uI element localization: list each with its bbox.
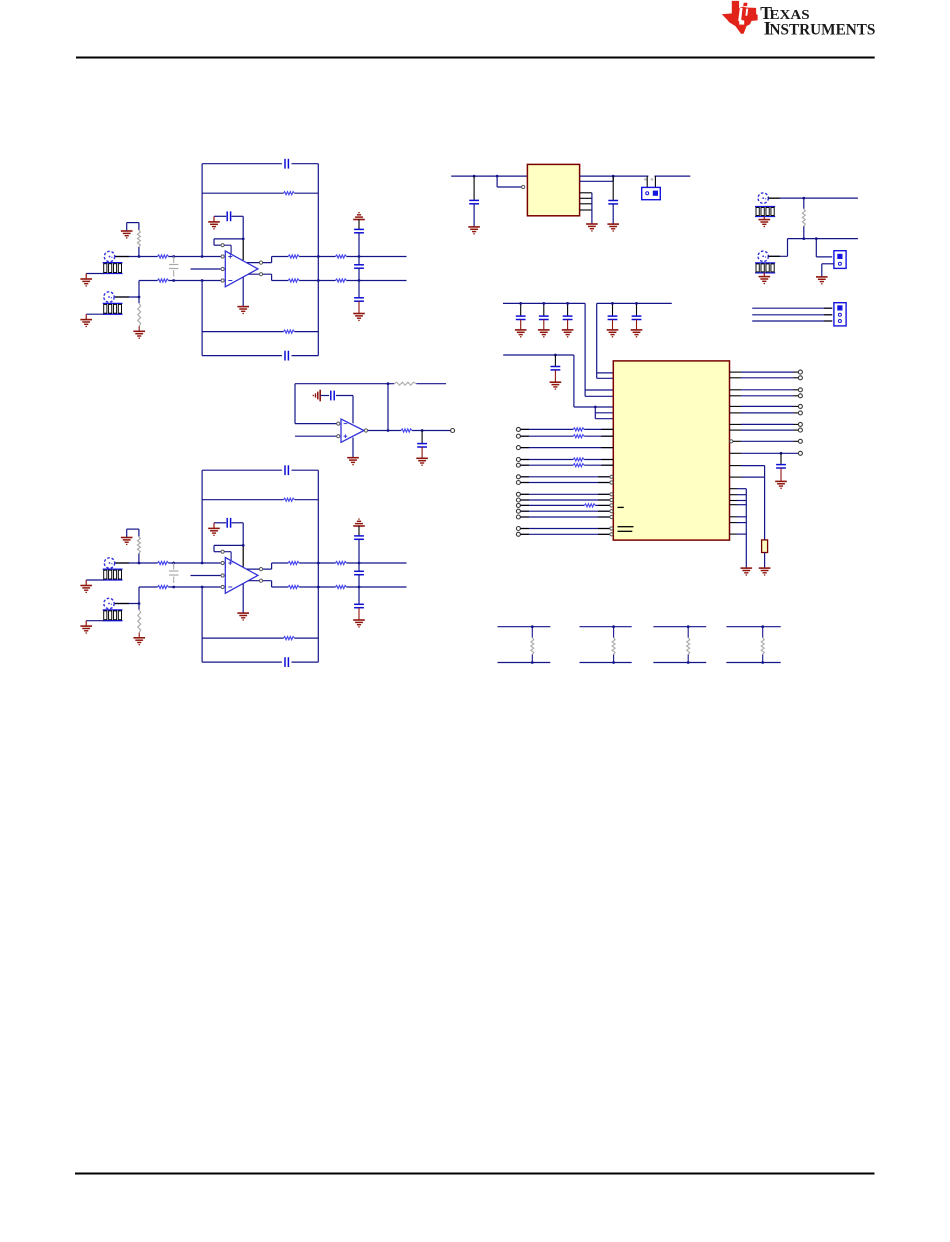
svg-text:NSTRUMENTS: NSTRUMENTS <box>770 22 876 39</box>
